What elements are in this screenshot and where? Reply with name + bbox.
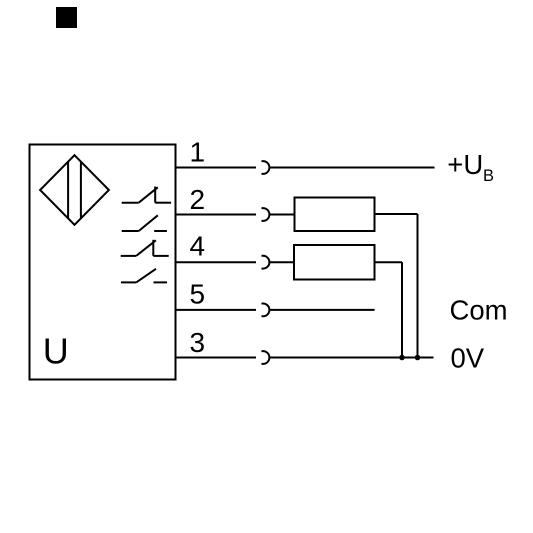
svg-text:5: 5	[190, 279, 206, 310]
load RL2	[294, 245, 375, 280]
svg-text:U: U	[43, 331, 69, 372]
switch contact S2 (output 2, open)	[122, 215, 167, 231]
svg-text:4: 4	[190, 230, 206, 261]
proximity sensor diamond symbol	[40, 155, 109, 225]
connector pin 2	[262, 208, 270, 221]
connector pin 1	[262, 161, 270, 174]
svg-text:1: 1	[190, 137, 206, 168]
wire pin4 inner segment	[176, 261, 257, 263]
junction dot RL1/0V	[415, 355, 421, 361]
wire RL1 output vertical to 0V	[417, 214, 419, 358]
switch contact S3 (output 4, closed)	[121, 240, 169, 256]
svg-text:0V: 0V	[451, 343, 485, 374]
wire pin1 inner segment	[176, 167, 257, 169]
watermark square (top-left)	[56, 7, 77, 28]
svg-text:2: 2	[190, 184, 206, 215]
load RL1	[295, 198, 375, 232]
connector pin 5	[262, 304, 270, 317]
wire pin2 inner segment	[176, 214, 257, 216]
svg-text:+U: +U	[447, 149, 483, 180]
svg-text:Com: Com	[450, 295, 508, 326]
wire pin2 to load RL1	[269, 214, 294, 216]
wire RL1 output horizontal	[375, 213, 418, 215]
wire pin5 Com	[269, 309, 374, 311]
wire pin4 to load RL2	[269, 261, 294, 263]
wire pin1 to +UB	[269, 167, 434, 169]
switch contact S4 (output 4, open)	[121, 269, 167, 283]
switch contact S1 (output 2, closed)	[122, 187, 171, 203]
connector pin 3	[262, 351, 270, 364]
connector pin 4	[262, 256, 270, 269]
junction dot RL2/0V	[399, 355, 405, 361]
wire pin3 inner segment	[176, 357, 257, 359]
svg-text:3: 3	[190, 327, 206, 358]
sensor box U1 outline	[30, 145, 176, 380]
wire pin3 0V rail	[269, 357, 433, 359]
wire pin5 inner segment	[176, 309, 257, 311]
wire RL2 output horizontal	[375, 261, 403, 263]
wire RL2 output vertical to 0V	[401, 262, 403, 357]
svg-text:B: B	[483, 167, 494, 185]
